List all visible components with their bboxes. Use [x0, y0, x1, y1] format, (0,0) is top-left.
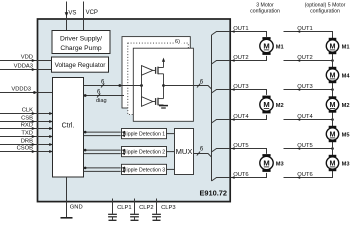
bus width slash on gate bus [101, 84, 104, 88]
svg-text:M: M [330, 42, 336, 51]
node junction OUT5 chain [331, 147, 334, 150]
svg-text:VDDA3: VDDA3 [14, 64, 33, 70]
OUT3 branch [212, 90, 231, 94]
pin RXD wire [0, 128, 53, 130]
svg-text:M: M [330, 71, 336, 80]
pin CSOB wire [0, 151, 53, 153]
motor M4 col2 [326, 67, 338, 83]
half-bridge instance stack: dotted box [128, 43, 189, 115]
svg-text:OUT3: OUT3 [233, 84, 248, 90]
pin VDD arrowhead [32, 59, 36, 62]
svg-text:OUT4: OUT4 [233, 114, 249, 120]
half-bridge front box [133, 48, 193, 121]
ground inside half-bridge [159, 105, 168, 107]
svg-text:MUX: MUX [176, 147, 193, 156]
OUT4 branch [212, 120, 231, 124]
svg-text:M2: M2 [276, 103, 284, 109]
wire Ripple1 to MUX [167, 133, 175, 135]
wire Ripple2 to MUX [167, 151, 175, 153]
node junction OUT3 chain [331, 88, 334, 91]
svg-text:CLK: CLK [22, 108, 33, 114]
wire OUT2 external col1 [231, 56, 267, 61]
svg-text:TXD: TXD [21, 131, 33, 137]
svg-text:OUT3: OUT3 [297, 84, 312, 90]
node junction OUT4 chain [331, 118, 334, 121]
pin VDD wire [0, 60, 52, 62]
pin DRB wire [0, 144, 53, 146]
pin VDDD3 wire [0, 92, 53, 94]
OUT2 branch [212, 61, 231, 65]
OUT6 branch [212, 178, 231, 182]
ground symbol GND [61, 217, 73, 219]
wire OUT2 external col2 [284, 60, 333, 62]
chain wire col2 [332, 32, 334, 178]
half-bridge instance stack: back box [122, 37, 190, 108]
junction dot on gate bus [118, 84, 121, 87]
svg-text:M: M [330, 159, 336, 168]
svg-text:OUT2: OUT2 [297, 55, 312, 61]
svg-text:6): 6) [175, 39, 180, 45]
wire OUT3 external col2 [284, 89, 333, 91]
wire OUT5 external col2 [284, 148, 333, 150]
svg-text:OUT4: OUT4 [297, 114, 313, 120]
wires Ctrl to Ripple Detection 2 [84, 149, 121, 151]
block: Ctrl. [53, 78, 84, 178]
capacitor CLP3 [152, 213, 161, 215]
capacitor CLP2 wire [134, 199, 136, 214]
svg-text:M3: M3 [342, 161, 350, 167]
pin CSB wire [0, 121, 53, 123]
motor M2 col1 [260, 96, 273, 114]
block: Voltage Regulator [52, 57, 109, 72]
svg-text:DRB: DRB [21, 139, 33, 145]
svg-text:VS: VS [68, 10, 76, 16]
wire OUT3 external col1 [231, 90, 267, 95]
bus width slash on diag bus [97, 94, 100, 98]
wire OUT6 external col2 [284, 173, 333, 178]
wire OUT1 external col2 [284, 32, 333, 37]
svg-text:OUT2: OUT2 [233, 55, 248, 61]
block: MUX [175, 129, 194, 175]
wire OUT1 external col1 [231, 32, 267, 37]
svg-text:E910.72: E910.72 [199, 188, 227, 197]
ground symbol CLP2 [131, 219, 139, 221]
chip U1 E910.72 outline [38, 19, 231, 202]
svg-text:Ripple Detection 2: Ripple Detection 2 [123, 150, 166, 156]
svg-text:VDDD3: VDDD3 [11, 87, 31, 93]
pin VS arrowhead [65, 12, 69, 16]
motor M1 col1 [260, 37, 273, 55]
svg-text:M: M [330, 100, 336, 109]
svg-text:OUT6: OUT6 [297, 172, 312, 178]
wires Ctrl to Ripple Detection 3 [84, 167, 121, 169]
svg-text:OUT6: OUT6 [233, 172, 248, 178]
half-bridge input split wire [141, 70, 143, 101]
OUT5 branch [212, 149, 231, 153]
svg-text:configuration: configuration [310, 9, 340, 15]
wires Ctrl to Ripple Detection 1 [84, 131, 121, 133]
block: Ripple Detection 1 [122, 129, 167, 139]
pin VCP wire [83, 2, 85, 31]
svg-text:OUT1: OUT1 [233, 26, 248, 32]
svg-text:M: M [263, 100, 269, 109]
wire Ripple3 to MUX [167, 168, 175, 170]
svg-text:Ripple Detection 3: Ripple Detection 3 [123, 167, 166, 173]
svg-text:CLP3: CLP3 [161, 205, 176, 211]
wire OUT5 external col1 [231, 149, 267, 154]
motor M3 col1 [260, 154, 273, 172]
bus width slash on MUX output [197, 152, 200, 156]
svg-text:OUT1: OUT1 [297, 26, 312, 32]
svg-text:diag: diag [96, 98, 107, 104]
svg-text:M3: M3 [276, 161, 284, 167]
motor M3 col2 [326, 155, 338, 171]
svg-text:M2: M2 [342, 103, 350, 109]
ground symbol CLP1 [109, 219, 117, 221]
capacitor CLP3 wire [156, 199, 158, 214]
pin VS wire [66, 2, 68, 31]
pin TXD wire [0, 136, 53, 138]
half-bridge input node dot [140, 84, 143, 87]
OUT1 branch [212, 32, 231, 36]
wire diag bus Ctrl to half-bridge [84, 95, 125, 97]
svg-text:CSB: CSB [21, 116, 33, 122]
ground symbol CLP3 [153, 219, 161, 221]
capacitor CLP1 [108, 213, 117, 215]
motor M5 col2 [326, 126, 338, 142]
block: Ripple Detection 3 [122, 164, 167, 174]
transistor lower low-side FET [153, 86, 164, 106]
svg-text:M: M [263, 42, 269, 51]
svg-text:RXD: RXD [21, 123, 33, 129]
svg-text:M: M [330, 130, 336, 139]
svg-text:M5: M5 [342, 132, 350, 138]
transistor upper high-side FET [153, 61, 164, 86]
svg-text:M1: M1 [276, 44, 284, 50]
gate driver buffer upper [142, 66, 153, 76]
svg-text:Driver Supply/: Driver Supply/ [60, 35, 102, 42]
svg-text:CLP1: CLP1 [117, 205, 132, 211]
capacitor CLP2 [130, 213, 139, 215]
pin CLK wire [0, 113, 53, 115]
capacitor CLP1 wire [112, 199, 114, 214]
bus width slash on output [197, 84, 200, 88]
motor M1 col2 [326, 38, 338, 54]
wire gate bus Ctrl to half-bridge [84, 85, 142, 87]
wire half-bridge output to bus [164, 86, 212, 90]
svg-text:Charge Pump: Charge Pump [60, 45, 102, 52]
wire OUT4 external col2 [284, 119, 333, 121]
supply arrow up [162, 58, 165, 62]
block: Ripple Detection 2 [122, 147, 167, 157]
svg-text:M4: M4 [342, 73, 351, 79]
wire OUT4 external col1 [231, 115, 267, 120]
svg-text:Ctrl.: Ctrl. [62, 123, 75, 130]
label 6) instances [174, 37, 184, 43]
svg-text:VCP: VCP [86, 10, 98, 16]
svg-text:CSOB: CSOB [17, 146, 34, 152]
svg-text:VDD: VDD [21, 55, 33, 61]
svg-text:M1: M1 [342, 44, 350, 50]
svg-text:GND: GND [70, 205, 83, 211]
pin VDDA3 arrowhead [32, 68, 36, 71]
svg-text:CLP2: CLP2 [139, 205, 154, 211]
pin VDDA3 wire [0, 69, 52, 71]
pin VDDD3 junction dot [33, 91, 36, 94]
svg-text:configuration: configuration [250, 9, 280, 15]
wire MUX output to bus [194, 154, 212, 158]
node junction OUT2 chain [331, 59, 334, 62]
gate driver buffer lower [142, 97, 153, 107]
svg-text:M: M [263, 159, 269, 168]
motor M2 col2 [326, 96, 338, 112]
vertical output bus [211, 35, 213, 181]
svg-text:Ripple Detection 1: Ripple Detection 1 [123, 132, 166, 138]
half-bridge output node dot [162, 84, 165, 87]
svg-text:OUT5: OUT5 [297, 143, 312, 149]
pin GND wire [66, 177, 68, 217]
block: Driver Supply / Charge Pump [52, 31, 110, 54]
wire OUT6 external col1 [231, 173, 267, 178]
svg-text:OUT5: OUT5 [233, 143, 248, 149]
svg-text:Voltage Regulator: Voltage Regulator [55, 62, 107, 69]
junction dot on diag bus [84, 94, 87, 97]
